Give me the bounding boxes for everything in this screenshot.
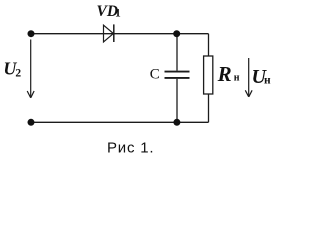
- svg-text:н: н: [234, 73, 240, 84]
- svg-text:2: 2: [15, 68, 21, 80]
- svg-text:Рис 1.: Рис 1.: [107, 140, 154, 157]
- svg-text:н: н: [264, 74, 271, 86]
- svg-text:R: R: [217, 62, 232, 86]
- svg-text:C: C: [150, 67, 160, 83]
- svg-text:1: 1: [115, 8, 121, 20]
